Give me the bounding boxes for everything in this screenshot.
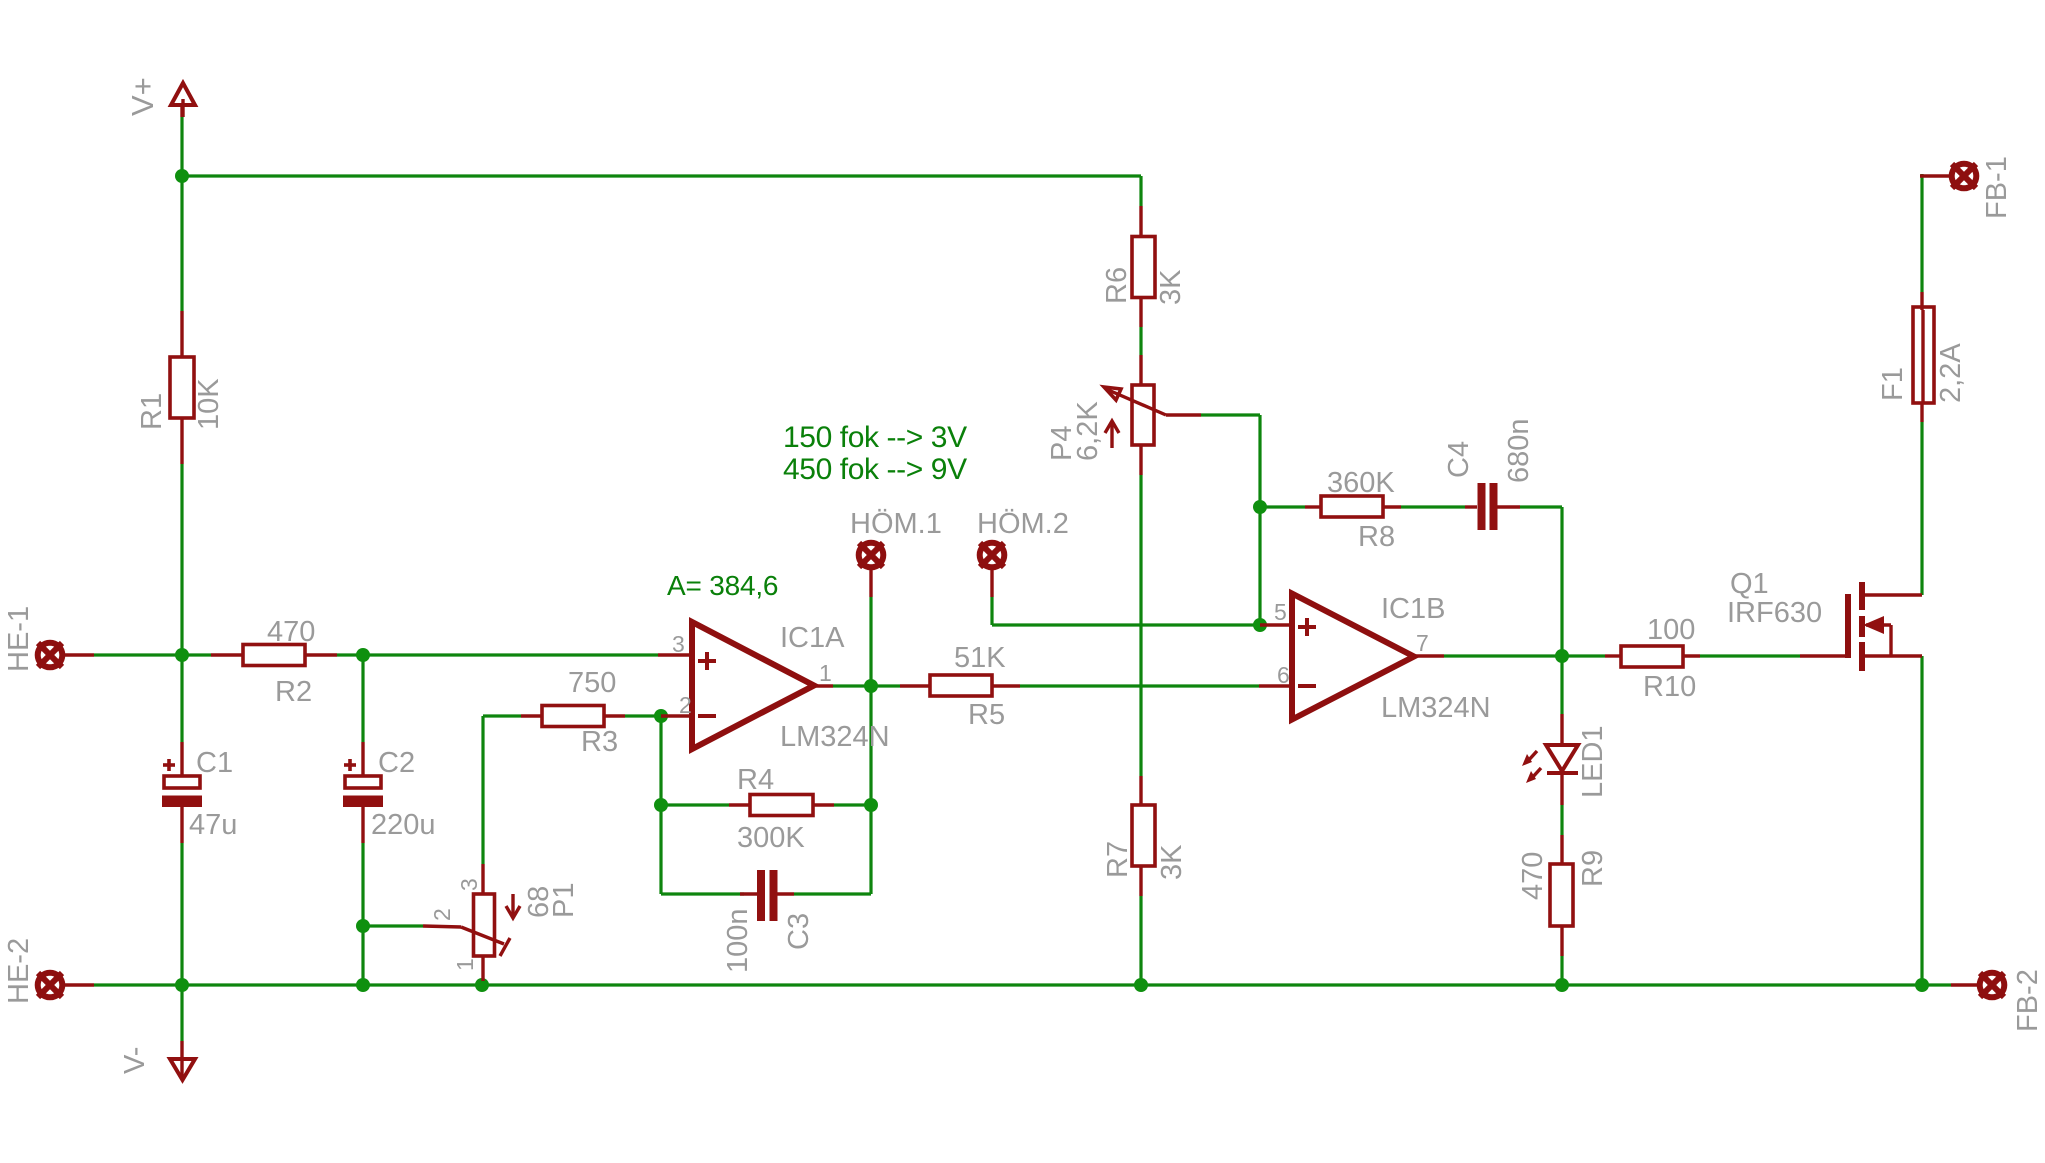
svg-text:51K: 51K [954,642,1006,674]
svg-text:C3: C3 [783,913,815,950]
svg-text:C2: C2 [378,747,415,779]
svg-text:R10: R10 [1643,671,1696,703]
svg-text:100n: 100n [722,908,754,973]
svg-text:3: 3 [456,878,482,891]
svg-text:2,2A: 2,2A [1935,343,1967,403]
svg-text:A= 384,6: A= 384,6 [667,570,778,601]
svg-text:R7: R7 [1102,841,1134,878]
svg-text:1: 1 [452,958,478,971]
svg-text:10K: 10K [193,378,225,430]
svg-text:1: 1 [819,660,832,686]
svg-text:6,2K: 6,2K [1072,401,1104,461]
svg-text:R8: R8 [1358,521,1395,553]
svg-text:FB-1: FB-1 [1981,156,2013,219]
svg-text:R9: R9 [1577,850,1609,887]
svg-text:3K: 3K [1156,844,1188,880]
svg-text:2: 2 [679,692,692,718]
svg-text:470: 470 [1517,852,1549,900]
svg-text:IRF630: IRF630 [1727,597,1822,629]
svg-text:P1: P1 [548,883,580,918]
svg-text:R5: R5 [968,699,1005,731]
svg-text:HE-2: HE-2 [3,938,35,1004]
svg-text:R4: R4 [737,764,774,796]
svg-text:IC1B: IC1B [1381,593,1445,625]
svg-text:C1: C1 [196,747,233,779]
svg-text:IC1A: IC1A [780,622,845,654]
svg-text:HE-1: HE-1 [3,606,35,672]
svg-text:6: 6 [1277,662,1290,688]
svg-text:7: 7 [1416,630,1429,656]
svg-text:F1: F1 [1877,367,1909,401]
svg-text:470: 470 [267,616,315,648]
svg-text:R3: R3 [581,726,618,758]
svg-text:R6: R6 [1101,267,1133,304]
svg-text:LM324N: LM324N [1381,692,1491,724]
svg-text:3: 3 [672,631,685,657]
svg-text:R2: R2 [275,676,312,708]
svg-text:V+: V+ [125,77,160,116]
svg-text:47u: 47u [189,809,237,841]
svg-text:3K: 3K [1155,269,1187,305]
svg-text:V-: V- [119,1047,151,1074]
svg-text:Q1: Q1 [1730,568,1769,600]
svg-text:LM324N: LM324N [780,721,890,753]
svg-text:HÖM.1: HÖM.1 [850,508,942,540]
svg-text:2: 2 [429,908,455,921]
svg-text:360K: 360K [1327,467,1395,499]
svg-text:LED1: LED1 [1577,725,1609,798]
svg-text:R1: R1 [136,393,168,430]
svg-text:5: 5 [1274,599,1287,625]
svg-text:C4: C4 [1443,441,1475,478]
svg-text:HÖM.2: HÖM.2 [977,508,1069,540]
svg-text:300K: 300K [737,822,805,854]
svg-text:680n: 680n [1503,418,1535,483]
svg-text:220u: 220u [371,809,436,841]
svg-text:150 fok --> 3V: 150 fok --> 3V [783,421,967,454]
svg-text:450 fok --> 9V: 450 fok --> 9V [783,453,967,486]
svg-text:FB-2: FB-2 [2012,969,2044,1032]
svg-text:100: 100 [1647,614,1695,646]
svg-text:750: 750 [568,667,616,699]
